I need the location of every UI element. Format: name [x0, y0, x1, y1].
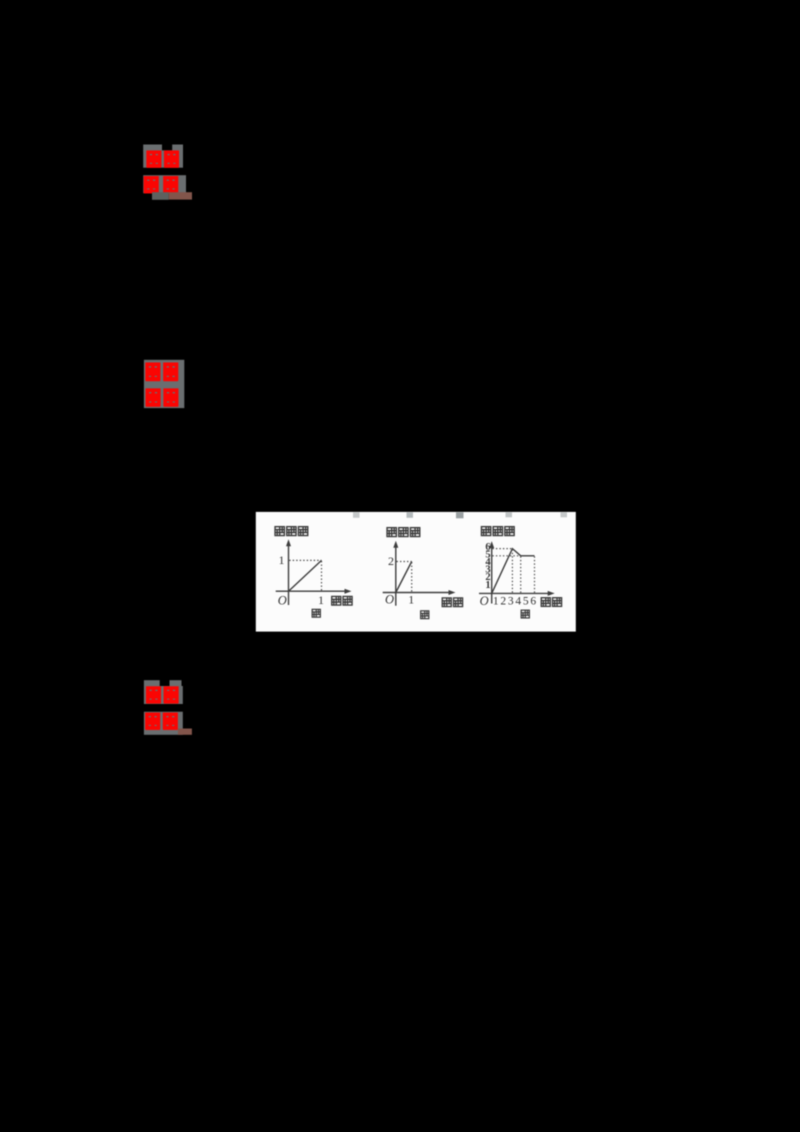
svg-text:4: 4 [515, 595, 521, 607]
svg-text:1: 1 [493, 595, 499, 607]
svg-text:6: 6 [530, 595, 536, 607]
svg-text:5: 5 [523, 595, 529, 607]
svg-text:1: 1 [485, 580, 490, 591]
svg-text:3: 3 [508, 595, 514, 607]
svg-text:1: 1 [279, 553, 285, 567]
svg-text:O: O [480, 594, 489, 608]
svg-text:2: 2 [500, 595, 506, 607]
svg-text:O: O [385, 593, 394, 607]
svg-text:1: 1 [408, 593, 414, 607]
svg-text:1: 1 [318, 593, 324, 607]
svg-text:2: 2 [388, 554, 394, 568]
svg-text:O: O [278, 594, 287, 608]
